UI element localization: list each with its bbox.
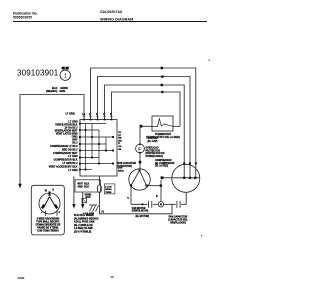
- svg-text:SOBRECARGA): SOBRECARGA): [146, 155, 164, 158]
- svg-text:(EL COMPRESOR: (EL COMPRESOR: [155, 163, 175, 165]
- svg-text:DE LA RED): DE LA RED): [155, 165, 168, 168]
- svg-text:VENTILADOR): VENTILADOR): [170, 221, 186, 224]
- svg-text:(TOMACORRIENTE DE: (TOMACORRIENTE DE: [36, 223, 61, 226]
- svg-text:SY: SY: [118, 132, 121, 134]
- svg-text:N: N: [59, 212, 61, 214]
- svg-text:RUN CAPACITOR: RUN CAPACITOR: [117, 162, 136, 165]
- svg-text:W: W: [45, 190, 48, 192]
- svg-text:V: V: [127, 196, 129, 200]
- svg-text:(NEGRO) GRN: (NEGRO) GRN: [46, 89, 65, 93]
- svg-text:1: 1: [64, 73, 67, 79]
- svg-text:SE: SE: [118, 149, 121, 151]
- svg-text:FAN CAPACITOR: FAN CAPACITOR: [169, 215, 188, 218]
- svg-text:5995309055: 5995309055: [13, 16, 32, 20]
- svg-text:COMPRESSOR: COMPRESSOR: [155, 160, 172, 162]
- svg-text:RRA): RRA): [118, 169, 124, 172]
- svg-text:ST: ST: [118, 135, 121, 137]
- svg-text:FAN MOTOR: FAN MOTOR: [132, 207, 146, 210]
- svg-text:L1: L1: [82, 113, 86, 116]
- svg-text:AND BLK: AND BLK: [78, 186, 90, 189]
- svg-text:LT GRN: LT GRN: [68, 169, 77, 172]
- svg-text:SW: SW: [118, 140, 122, 142]
- svg-text:(CAPACITOR): (CAPACITOR): [117, 165, 132, 168]
- svg-text:WIRING DIAGRAM: WIRING DIAGRAM: [100, 18, 133, 22]
- svg-text:(CAPACITOR DEL: (CAPACITOR DEL: [168, 218, 188, 221]
- svg-text:(EL MOTOR): (EL MOTOR): [136, 216, 150, 218]
- svg-text:B: B: [156, 195, 158, 198]
- svg-text:GRND: GRND: [85, 194, 92, 196]
- svg-text:3 WIRE GROUNDING: 3 WIRE GROUNDING: [37, 218, 60, 220]
- svg-text:3290: 3290: [18, 276, 25, 280]
- svg-text:PARED DE 3 TERM.: PARED DE 3 TERM.: [37, 226, 59, 229]
- svg-text:CH: CH: [118, 146, 122, 148]
- svg-text:PROTECTOR: PROTECTOR: [146, 150, 161, 152]
- svg-text:GRND: GRND: [105, 189, 112, 191]
- svg-text:(PROTECTOR DE: (PROTECTOR DE: [146, 153, 165, 155]
- svg-text:F: F: [138, 147, 141, 152]
- svg-text:RUN CAP: RUN CAP: [148, 137, 159, 140]
- svg-text:L: L: [41, 212, 43, 214]
- svg-text:GAC052K7A8: GAC052K7A8: [100, 10, 122, 14]
- svg-text:TYPE WALL RECEPT.: TYPE WALL RECEPT.: [36, 220, 60, 223]
- svg-text:3 LUG: 3 LUG: [105, 186, 112, 188]
- svg-text:R: R: [101, 209, 104, 214]
- svg-text:12: 12: [110, 275, 114, 279]
- svg-text:(EL CAP): (EL CAP): [148, 140, 158, 143]
- svg-text:IT: IT: [118, 143, 121, 145]
- svg-text:EM: EM: [118, 138, 121, 140]
- svg-text:TERM: TERM: [105, 192, 111, 194]
- svg-text:OVERLOAD: OVERLOAD: [146, 147, 159, 150]
- svg-text:(VENTILADOR): (VENTILADOR): [132, 210, 149, 213]
- svg-text:LT GRN: LT GRN: [66, 113, 75, 116]
- svg-text:(15 A FUSIBLE): (15 A FUSIBLE): [74, 231, 92, 234]
- svg-text:G: G: [52, 190, 54, 192]
- svg-text:CON TOMA TIERRA: CON TOMA TIERRA: [37, 229, 59, 232]
- svg-text:309103901: 309103901: [17, 69, 59, 78]
